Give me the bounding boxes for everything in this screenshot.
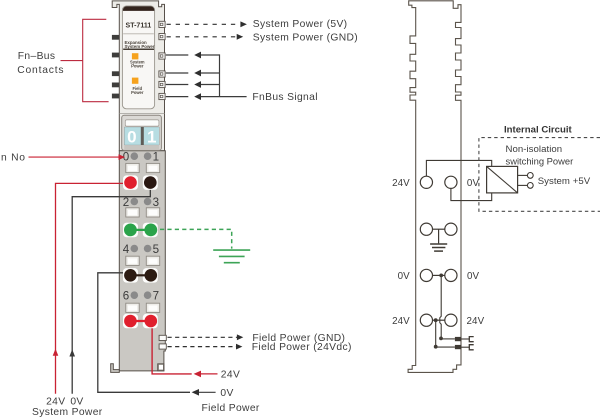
wire link terminal2-terminal3 (green) [130,229,150,231]
blade connector upper [469,337,473,342]
terminal slot row1 right [146,163,159,172]
terminal 24V input right [445,176,457,188]
module U1 right mounting foot [158,364,164,371]
terminal 5 (0V field, black) [145,269,158,282]
wire link 24V pair [433,319,445,321]
wire link terminal6-terminal7 (red) [130,320,150,322]
rotary address switch bezel [122,115,162,150]
terminal slot row4 left [126,303,139,312]
wire to ground symbol [438,229,440,243]
face plate divider thin [123,33,154,35]
pin stub +5V [518,174,528,176]
pin number row 4/5 [123,243,159,256]
LED System Power [132,53,139,59]
arrow up on 24V system wire [53,349,59,356]
pin hole B2 [144,198,152,206]
arrow Field Power 24Vdc [236,344,242,350]
wire junction to lower jumper contact [436,346,455,348]
terminal 24V pass pair right [445,314,457,326]
terminal ground pair right [445,223,457,235]
junction 24V jumper [434,345,438,349]
blade connector lower [469,345,473,350]
pin hole D2 [144,291,152,299]
bus clip K3 [159,53,165,59]
pin circle +5V [527,173,533,179]
arrow up on 0V system wire [69,349,75,356]
svg-text:switching Power: switching Power [506,155,574,166]
svg-text:24V: 24V [467,316,485,327]
wire lower contact to blade [461,346,469,348]
svg-text:Fn–Bus: Fn–Bus [18,51,56,62]
terminal 24V pass pair left [420,314,432,326]
terminal slot row3 right [146,256,159,265]
module U1 left mounting foot [111,364,120,373]
svg-text:24V: 24V [392,178,410,189]
red bracket label arm [61,60,83,62]
svg-text:0V: 0V [220,388,233,399]
FnBus wire 4 [201,96,247,98]
svg-text:Field Power (24Vdc): Field Power (24Vdc) [252,342,352,353]
terminal slot row4 right [146,303,159,312]
terminal 7 pad [143,314,158,329]
pin stub +5V return [518,184,528,186]
terminal slot row1 left [126,163,139,172]
wire 0V to switching power [451,188,492,200]
dashed line System Power 5V [167,23,241,25]
terminal 0V pair right [445,269,457,281]
svg-text:Power: Power [131,64,144,69]
wire junction to upper jumper contact [441,338,455,340]
svg-text:1: 1 [147,128,156,147]
wire 0V down to jumper contact (with crossover jog) [440,275,441,338]
pin hole C1 [131,245,139,253]
FnBus stub line 1 [166,54,189,56]
wire upper contact to blade [461,338,469,340]
FnBus contact pad 4 [112,83,119,88]
wire 24V to switching power [426,160,491,176]
svg-text:3: 3 [153,196,159,209]
svg-text:5: 5 [153,243,159,256]
svg-text:Internal Circuit: Internal Circuit [504,124,573,135]
label Expansion System Power [125,40,155,49]
dashed line Field Power GND [168,336,239,338]
terminal 3 (ground, green) [144,224,157,237]
wire link ground pair [433,228,445,230]
module U1 ST-7111 upper body [112,1,164,151]
dashed line System Power GND [167,36,237,38]
junction 0V jumper [439,337,443,341]
svg-text:System Power (5V): System Power (5V) [253,19,348,30]
terminal 7 (24V field, red) [145,315,158,328]
internal circuit dashed box [479,138,600,212]
label Field Power LED [131,86,144,95]
arrow Field Power GND [237,334,243,340]
module U2 side-view outline [408,1,461,373]
arrow System Power GND [237,34,244,40]
arrow 0V field left [192,389,199,396]
svg-text:7: 7 [153,290,159,303]
terminal 1 pad [143,175,158,190]
wire link 0V pair [433,274,445,276]
dashed line Field Power 24Vdc [168,346,238,348]
svg-text:1: 1 [153,151,159,164]
terminal 5 pad [143,268,158,283]
svg-text:Non-isolation: Non-isolation [506,144,563,155]
field power jumper tab upper [159,335,166,340]
FnBus stub line 2 [166,72,189,74]
svg-text:System +5V: System +5V [538,176,591,187]
wire link terminal4-terminal5 (dark) [130,274,150,276]
FnBus contact pad 2 [112,53,119,58]
wire 0V system (black) from terminal 1 [72,185,150,394]
svg-text:FnBus Signal: FnBus Signal [252,92,317,103]
switching power supply PS1 [487,166,518,193]
terminal 1 (0V, black) [144,176,157,189]
svg-text:0: 0 [127,128,136,147]
face plate dark top bar [123,6,154,10]
bus clip K6 [159,93,165,99]
svg-text:24V: 24V [221,370,240,381]
terminal slot row2 right [146,208,159,217]
svg-text:6: 6 [123,290,129,303]
pin circle +5V return [527,183,533,189]
pin number row 6/7 [123,290,159,303]
bus clip K1 [159,21,165,27]
terminal 2 (ground, green) [124,224,137,237]
FnBus stub line 3 [166,84,189,86]
wire 24V system (red) from terminal 0 [56,183,128,393]
module U1 terminal block body [119,151,165,371]
svg-text:0V: 0V [398,271,411,282]
switch bottom strip [124,146,159,150]
field power jumper tab lower [159,344,166,349]
svg-text:Contacts: Contacts [17,65,64,76]
svg-text:ST-7111: ST-7111 [126,23,152,30]
svg-text:0V: 0V [467,271,480,282]
pin number row 0/1 [123,151,159,164]
terminal ground pair left [420,223,432,235]
ground wire dashed (green) [160,229,232,248]
LED Field Power [132,78,139,84]
FnBus stub line 4 [166,96,189,98]
ground symbol (green) [213,250,250,263]
face plate divider thick [123,49,154,51]
svg-text:24V: 24V [392,316,410,327]
switch window strip [125,120,159,126]
svg-text:0V: 0V [70,396,83,407]
FnBus wire 2 [201,72,220,74]
pin hole A2 [144,152,152,160]
arrow System Power 5V [240,21,247,27]
FnBus contact pad 5 [112,94,119,99]
FnBus wire 1 [201,54,220,56]
svg-text:System Power: System Power [125,44,155,49]
svg-text:in No: in No [0,153,26,164]
terminal 6 (24V field, red) [124,315,137,328]
FnBus contact pad 3 [112,71,119,76]
FnBus bus bracket vertical [219,54,221,96]
terminal 0V pair left [420,269,432,281]
svg-text:0V: 0V [467,178,480,189]
pin hole D1 [131,291,139,299]
svg-text:Power: Power [131,90,144,95]
line to 0V field label [199,391,216,393]
jumper contact upper [455,337,461,341]
terminal 6 pad [123,314,138,329]
terminal 0 (24V field, red) [124,176,137,189]
svg-text:Field Power: Field Power [201,403,259,414]
arrow 24V field left [194,371,201,378]
terminal 4 pad [123,268,138,283]
wire 24V down to jumper contact [435,320,437,347]
FnBus arrow 3 [194,81,201,88]
bus clip K4 [159,71,165,77]
pin hole C2 [144,245,152,253]
label System Power LED [130,60,145,69]
module U1 face plate [122,6,154,109]
FnBus arrow 4 [194,93,201,100]
terminal slot row2 left [126,208,139,217]
pin hole B1 [131,198,139,206]
terminal 4 (0V field, black) [124,269,137,282]
svg-text:24V: 24V [46,396,65,407]
divider line above switch [119,112,164,114]
terminal 3 pad [143,223,158,238]
FnBus arrow 2 [194,70,201,77]
FnBus arrow 1 [194,52,201,59]
red line pin No [29,156,120,158]
wire 0V field (dark) from terminal 4 [98,273,190,393]
pin hole A1 [131,152,139,160]
line to 24V field label [201,373,218,375]
ground symbol [430,244,447,251]
junction 24V [434,318,438,322]
switch digit cells background [124,127,159,145]
bus clip K2 [159,34,165,40]
pin number row 2/3 [123,196,159,209]
wire 24V field (red) from terminal 7 [152,323,192,374]
terminal 24V input left [420,176,432,188]
svg-text:4: 4 [123,243,130,256]
FnBus contact pad 1 [112,35,119,40]
FnBus wire 3 [201,84,220,86]
red arrow pin No [119,154,126,160]
junction 0V [439,274,443,278]
red bracket Fn-Bus contacts [83,19,109,101]
bus clip K5 [159,81,165,87]
svg-text:System Power: System Power [32,407,103,417]
jumper contact lower [455,345,461,349]
svg-text:2: 2 [123,196,129,209]
svg-text:System Power (GND): System Power (GND) [253,32,358,43]
terminal slot row3 left [126,256,139,265]
terminal 2 pad [123,223,138,238]
terminal 0 pad [123,175,138,190]
